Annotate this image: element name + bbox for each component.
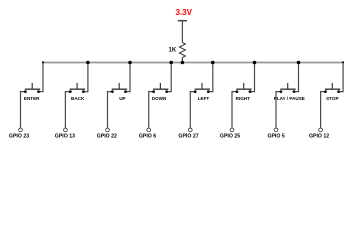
svg-text:GPIO 22: GPIO 22 — [97, 134, 117, 140]
svg-text:GPIO 5: GPIO 5 — [267, 134, 284, 140]
svg-text:DOWN: DOWN — [152, 96, 167, 101]
svg-text:GPIO 6: GPIO 6 — [139, 134, 156, 140]
svg-text:3.3V: 3.3V — [175, 8, 192, 17]
svg-text:PLAY / PAUSE: PLAY / PAUSE — [274, 96, 305, 101]
svg-text:BACK: BACK — [71, 96, 85, 101]
svg-text:1K: 1K — [169, 48, 177, 54]
svg-text:LEFT: LEFT — [198, 96, 210, 101]
svg-text:GPIO 25: GPIO 25 — [220, 134, 240, 140]
svg-text:GPIO 27: GPIO 27 — [178, 134, 198, 140]
svg-text:GPIO 12: GPIO 12 — [309, 134, 329, 140]
svg-text:UP: UP — [119, 96, 125, 101]
svg-text:GPIO 23: GPIO 23 — [9, 134, 29, 140]
svg-text:GPIO 13: GPIO 13 — [55, 134, 75, 140]
svg-text:STOP: STOP — [326, 96, 338, 101]
svg-text:RIGHT: RIGHT — [236, 96, 250, 101]
svg-text:ENTER: ENTER — [24, 96, 40, 101]
